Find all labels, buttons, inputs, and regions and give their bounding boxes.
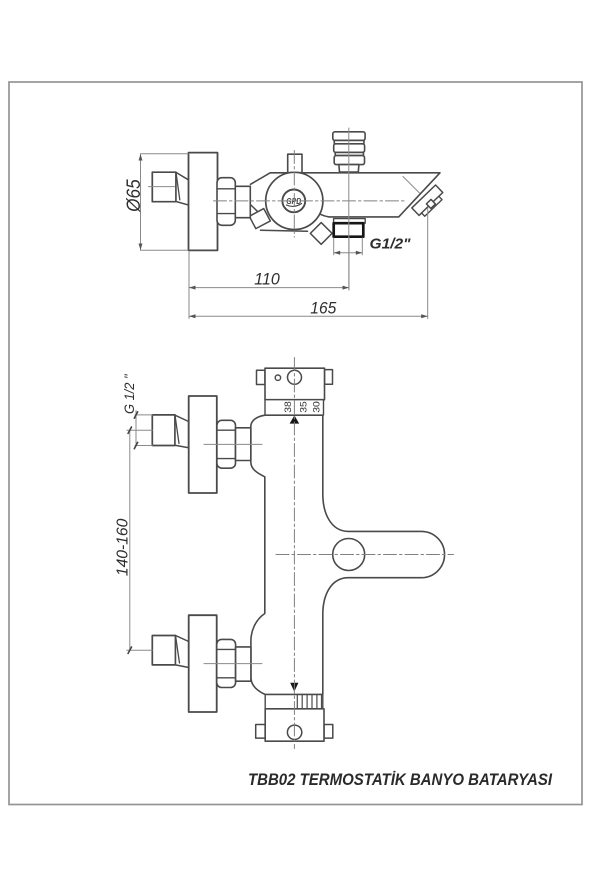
lower flange xyxy=(189,615,217,712)
centerline horizontal (arm axis) xyxy=(276,554,454,556)
svg-text:G 1/2 ": G 1/2 " xyxy=(121,374,137,414)
dim G1/2 extension lines xyxy=(333,238,335,255)
wire: lower inlet axis xyxy=(204,663,262,665)
svg-text:Ø65: Ø65 xyxy=(124,179,145,213)
lower-right diverter stub xyxy=(310,223,332,245)
centerline horizontal (body axis) xyxy=(214,200,408,202)
diverter knob stack xyxy=(333,132,365,172)
dim Ø65 line xyxy=(140,154,142,250)
svg-text:35: 35 xyxy=(299,401,309,413)
lower eccentric taper xyxy=(176,636,189,668)
wire: upper inlet axis xyxy=(204,443,262,445)
upper inlet pipe xyxy=(152,415,175,446)
lower cylinder xyxy=(236,647,251,681)
svg-text:165: 165 xyxy=(310,299,337,317)
shell silhouette line under circle xyxy=(261,230,308,231)
dim G 1/2 line xyxy=(135,411,137,446)
indicator arrow up xyxy=(290,415,300,423)
bottom pipe hole xyxy=(287,725,301,739)
eccentric taper xyxy=(176,172,189,205)
lower hex nut xyxy=(217,639,236,687)
svg-text:30: 30 xyxy=(311,401,321,413)
upper eccentric taper xyxy=(175,415,189,448)
connecting cylinder xyxy=(235,186,250,217)
wall pipe nipple xyxy=(152,172,176,202)
bottom scale band with ticks xyxy=(265,695,323,709)
upper cylinder xyxy=(236,428,251,461)
upper hex nut xyxy=(217,420,236,468)
valve body circle xyxy=(266,172,323,229)
wire: aerator axis centerline xyxy=(403,177,420,194)
lower inlet pipe xyxy=(152,636,175,665)
centerline vertical (body axis) xyxy=(293,151,295,238)
svg-text:110: 110 xyxy=(254,271,280,289)
arm circle xyxy=(333,539,365,571)
svg-text:140-160: 140-160 xyxy=(114,518,131,576)
dim G 1/2 extension lines xyxy=(135,414,152,416)
top stub on body xyxy=(288,154,302,173)
aerator at spout tip xyxy=(412,185,446,219)
wire: pipe centerline xyxy=(149,186,177,188)
top wall block xyxy=(257,370,266,384)
logo ring xyxy=(282,190,305,213)
dim 110 extension lines xyxy=(188,252,190,319)
spout body outline xyxy=(251,173,441,217)
wall flange xyxy=(189,153,218,251)
trapezoid boss above shower nut xyxy=(334,219,366,224)
dim 110 line xyxy=(189,287,349,289)
dim 140-160 line xyxy=(129,430,131,650)
dim 165 extension line xyxy=(427,208,429,319)
centerline vertical (front axis) xyxy=(293,358,295,749)
svg-text:G1/2": G1/2" xyxy=(370,235,412,252)
dim G1/2 line xyxy=(334,252,363,254)
indicator arrow down xyxy=(290,683,298,692)
svg-text:TBB02 TERMOSTATİK BANYO BATARY: TBB02 TERMOSTATİK BANYO BATARYASI xyxy=(248,770,552,789)
shower outlet nut G1/2 (thick) xyxy=(334,223,364,237)
screw hole xyxy=(275,375,280,380)
upper flange xyxy=(189,396,217,493)
pipe hole xyxy=(288,370,302,384)
lower-left outlet stub xyxy=(249,209,270,229)
bottom wall block xyxy=(256,725,266,739)
shell bottom edge under circle xyxy=(251,205,262,216)
dim 140-160 extension lines xyxy=(127,429,153,431)
drawing frame xyxy=(9,82,582,805)
temperature scale band xyxy=(265,400,324,415)
dim 165 line xyxy=(189,315,428,317)
wire: knob/outlet vertical centerline xyxy=(348,128,350,290)
svg-text:38: 38 xyxy=(283,401,293,413)
hex nut at flange xyxy=(217,178,235,226)
dim Ø65 extension lines xyxy=(141,153,189,155)
body column and spout arm silhouette xyxy=(251,415,445,694)
